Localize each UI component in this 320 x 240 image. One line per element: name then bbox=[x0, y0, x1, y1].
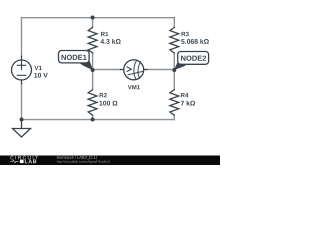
label VM1 bbox=[128, 85, 140, 89]
junction NODE2 bbox=[172, 68, 176, 72]
wire bottom rail bbox=[22, 119, 175, 121]
wire R1 top stub bbox=[92, 18, 94, 28]
resistor R4 bbox=[170, 90, 179, 116]
wire left branch lower bbox=[21, 84, 23, 120]
junction bottom of R2 bbox=[91, 118, 95, 122]
wire R1 bottom stub bbox=[92, 53, 94, 70]
wire R2 top stub bbox=[92, 70, 94, 90]
wire voltmeter left bbox=[93, 69, 121, 71]
label R4 value bbox=[181, 93, 195, 105]
resistor R2 bbox=[88, 90, 97, 116]
node NODE1 flag bbox=[59, 51, 93, 70]
logo CircuitLab bbox=[10, 156, 38, 163]
label R2 value bbox=[99, 93, 117, 106]
wire R4 bottom stub bbox=[173, 115, 175, 119]
footer text line 2 bbox=[57, 160, 110, 163]
wire R2 bottom stub bbox=[92, 115, 94, 119]
footer text line 1 bbox=[57, 156, 97, 160]
junction top of R1 bbox=[91, 16, 95, 20]
junction ground bbox=[20, 118, 24, 122]
resistor R3 bbox=[170, 27, 179, 53]
resistor R1 bbox=[88, 27, 97, 53]
wire top rail bbox=[22, 17, 175, 19]
label V1 value bbox=[34, 66, 48, 78]
voltmeter VM1 bbox=[120, 60, 147, 80]
node NODE2 flag bbox=[174, 52, 209, 70]
wire R3 top stub bbox=[173, 18, 175, 28]
ground bbox=[13, 120, 31, 138]
junction NODE1 bbox=[91, 68, 95, 72]
label R3 value bbox=[181, 32, 209, 44]
label R1 value bbox=[101, 32, 121, 44]
wire voltmeter right bbox=[147, 69, 174, 71]
footer bar bbox=[0, 156, 220, 166]
wire R3 bottom stub bbox=[173, 53, 175, 70]
wire left branch upper bbox=[21, 18, 23, 57]
voltage source V1 bbox=[12, 56, 32, 84]
wire R4 top stub bbox=[173, 70, 175, 90]
